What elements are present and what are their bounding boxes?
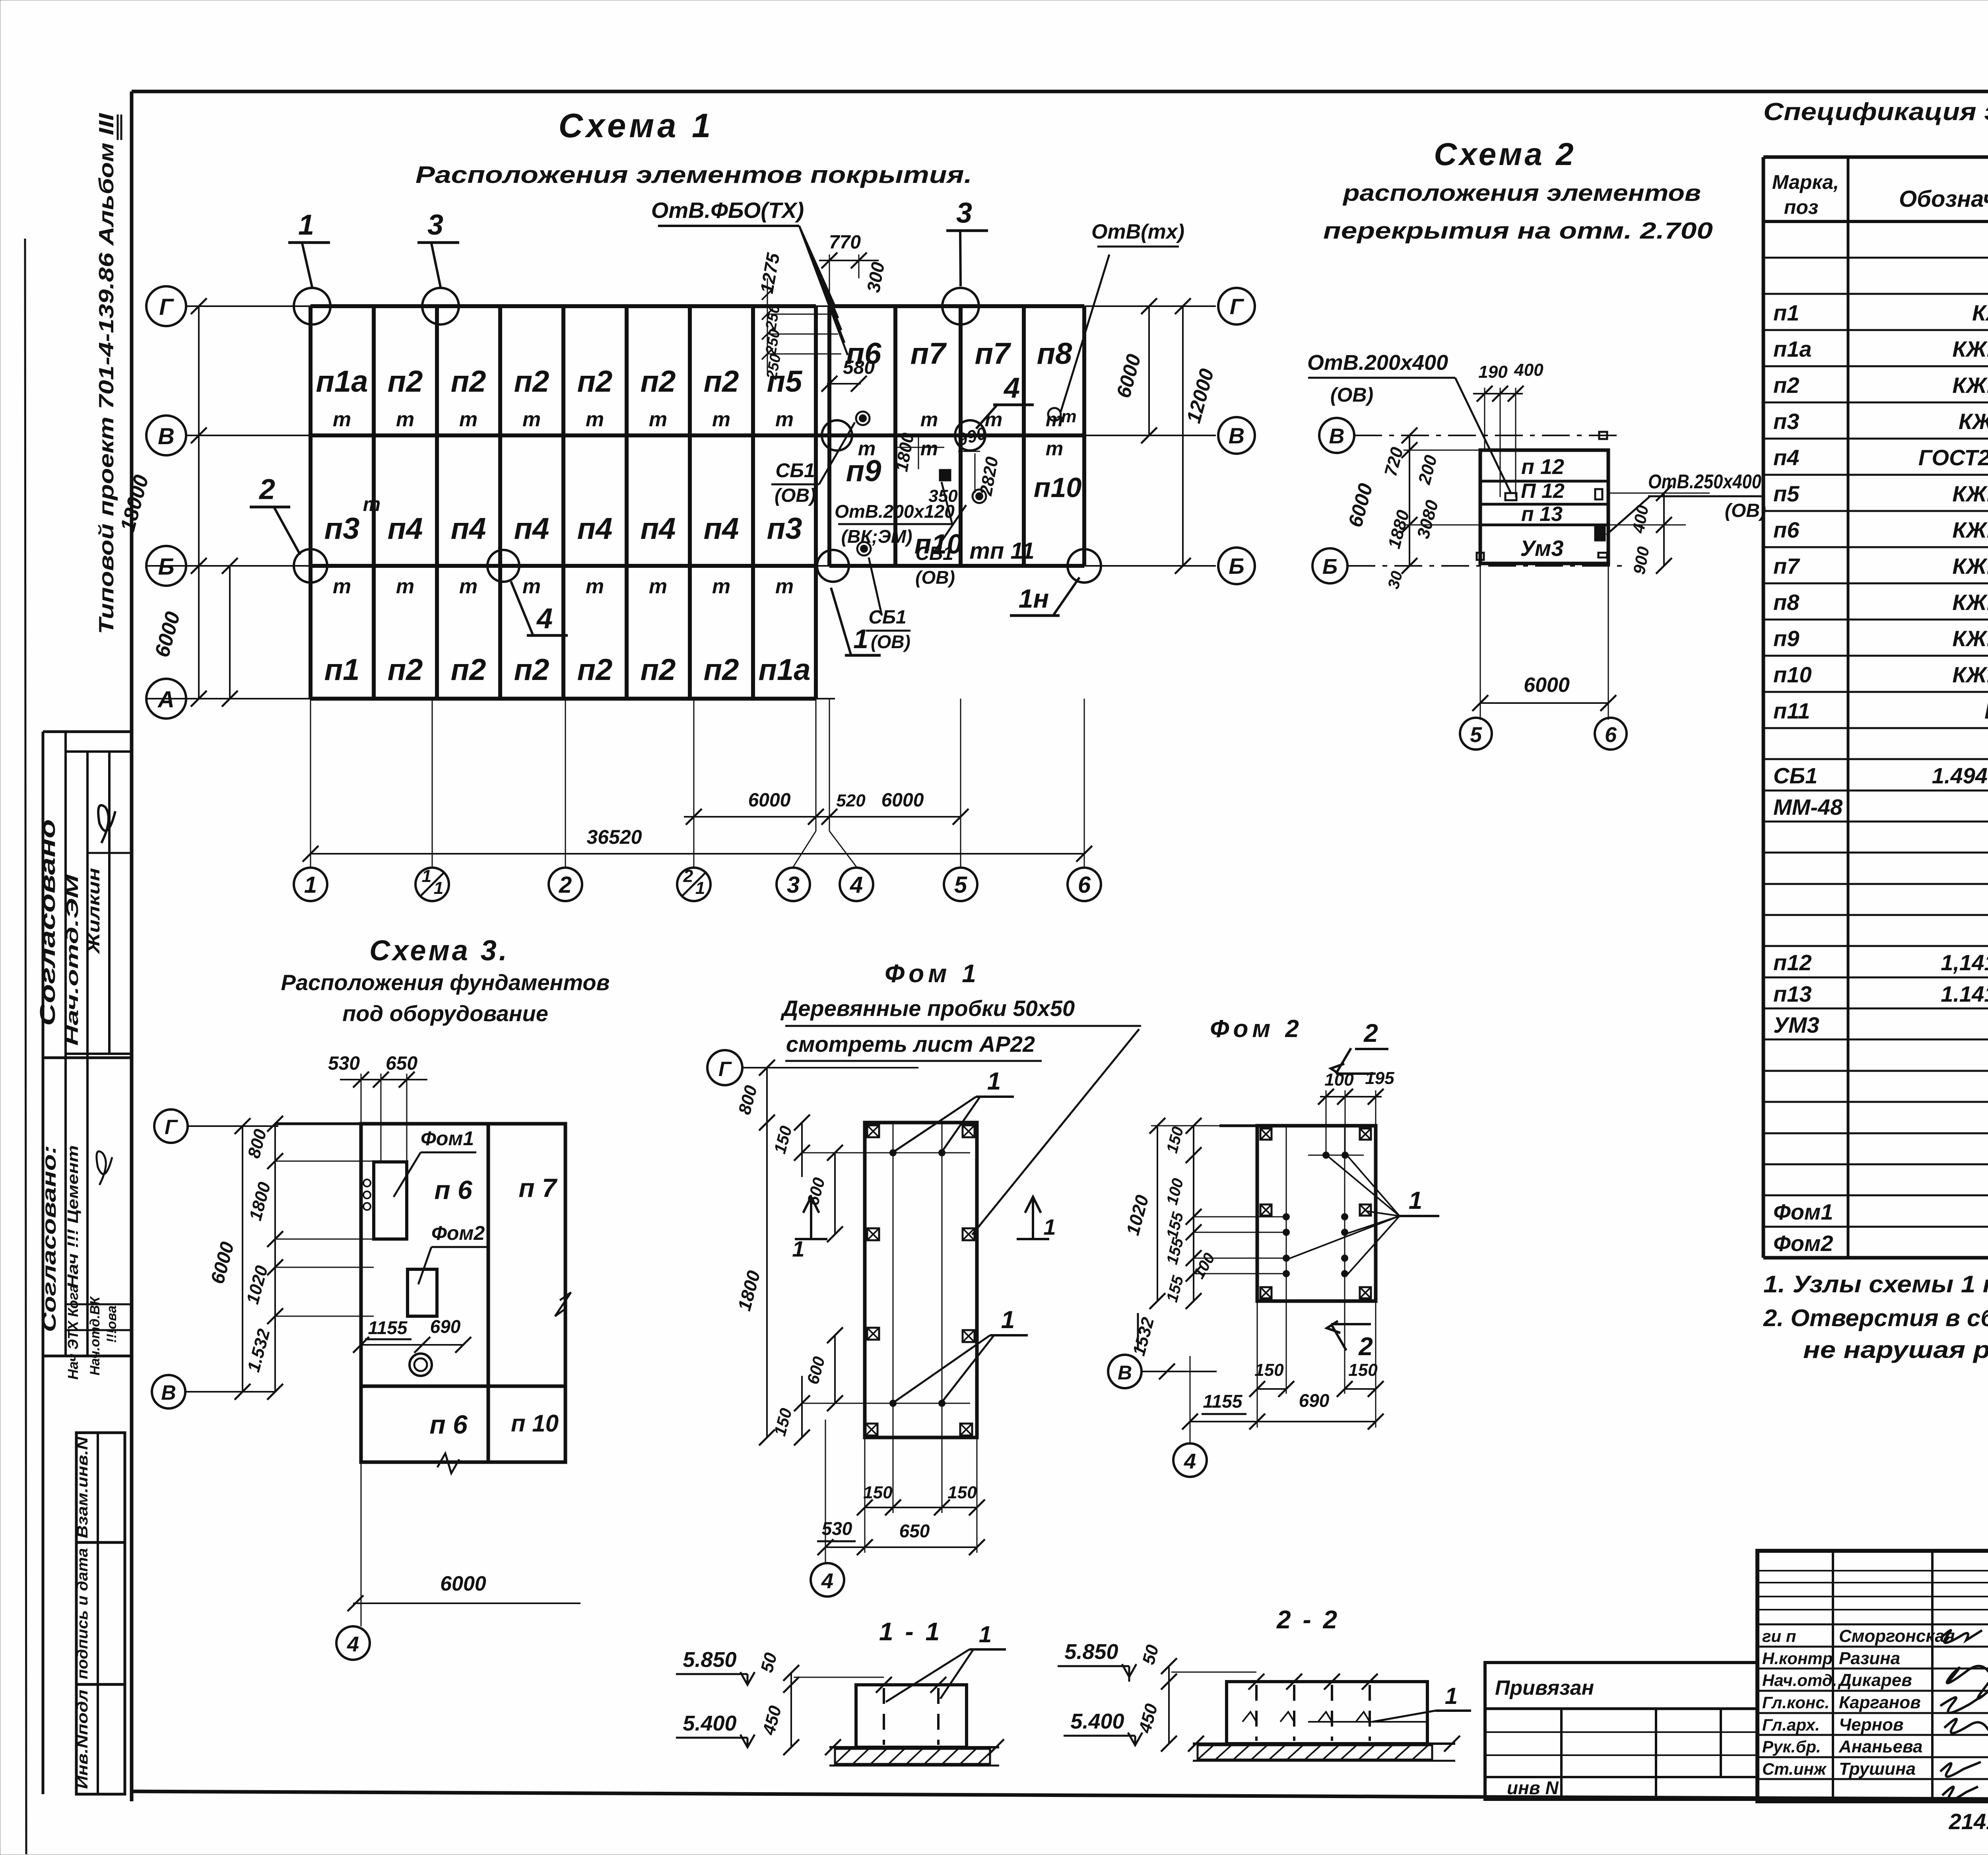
- svg-text:КЖ.И.031-03: КЖ.И.031-03: [1959, 409, 1988, 434]
- svg-text:Взам.инв.N: Взам.инв.N: [74, 1436, 91, 1538]
- svg-text:Ананьева: Ананьева: [1839, 1737, 1922, 1756]
- svg-text:п 6: п 6: [434, 1175, 473, 1204]
- svg-text:4: 4: [821, 1569, 833, 1593]
- svg-text:п2: п2: [451, 365, 486, 398]
- svg-text:п 13: п 13: [1521, 503, 1563, 526]
- svg-text:ОтВ(тх): ОтВ(тх): [1091, 220, 1184, 243]
- svg-text:В: В: [1118, 1362, 1132, 1384]
- svg-text:КЖ. И. 0.31: КЖ. И. 0.31: [1972, 300, 1988, 325]
- svg-text:530: 530: [822, 1518, 852, 1539]
- svg-text:п2: п2: [641, 653, 676, 687]
- Schema 1 left dimension lines 18000 / 6000: [198, 306, 200, 699]
- Schema 1 axis lines: [186, 305, 1084, 307]
- svg-text:т: т: [985, 408, 1002, 431]
- svg-text:т: т: [396, 408, 414, 431]
- title block outer: [1757, 1551, 1988, 1801]
- svg-text:690: 690: [430, 1316, 461, 1337]
- svg-text:п3: п3: [767, 512, 802, 546]
- Schema 3 drain symbol: [410, 1354, 432, 1376]
- svg-text:п10: п10: [1034, 472, 1082, 503]
- svg-text:п4: п4: [641, 512, 676, 546]
- svg-text:Расположения фундаментов: Расположения фундаментов: [281, 970, 610, 995]
- svg-text:п10: п10: [1773, 662, 1812, 687]
- svg-text:2 - 2: 2 - 2: [1276, 1605, 1340, 1634]
- svg-text:Фом2: Фом2: [431, 1222, 485, 1244]
- svg-text:1: 1: [1043, 1214, 1056, 1239]
- svg-text:Схема 3.: Схема 3.: [369, 935, 509, 967]
- Schema 1 bottom dim 36520: [311, 853, 1084, 855]
- svg-text:2: 2: [1363, 1019, 1378, 1047]
- svg-text:3: 3: [427, 209, 443, 241]
- Schema 1 right dimension lines 6000 / 12000: [1148, 306, 1150, 435]
- svg-text:6000: 6000: [748, 790, 791, 811]
- svg-text:п 6: п 6: [429, 1410, 468, 1439]
- svg-text:Чернов: Чернов: [1839, 1715, 1904, 1735]
- svg-text:Трушина: Трушина: [1839, 1759, 1916, 1779]
- Schema 1 left axis circles: [146, 286, 186, 326]
- svg-text:т: т: [333, 408, 351, 431]
- Schema 2 bottom axis circles 5 6: [1460, 718, 1492, 750]
- small hatch square symbol: [940, 470, 950, 480]
- svg-text:т: т: [459, 408, 478, 431]
- svg-text:п2: п2: [704, 365, 739, 398]
- Schema 1 node circles on axes: [294, 288, 330, 324]
- svg-text:1155: 1155: [1203, 1391, 1243, 1412]
- svg-text:2. Отверстия в сборных пл: 2. Отверстия в сборных плитах просверлит…: [1763, 1305, 1988, 1331]
- svg-text:т: т: [775, 575, 794, 598]
- svg-text:т: т: [920, 408, 938, 431]
- svg-text:690: 690: [1299, 1390, 1330, 1411]
- svg-text:А: А: [157, 687, 175, 713]
- svg-text:5: 5: [1470, 723, 1482, 747]
- svg-text:Фом 2: Фом 2: [1210, 1015, 1303, 1043]
- svg-text:п4: п4: [1773, 445, 1799, 470]
- svg-text:Фом 1: Фом 1: [885, 959, 980, 988]
- svg-text:(ОВ): (ОВ): [871, 631, 911, 652]
- svg-text:т: т: [522, 575, 541, 598]
- svg-text:Сморгонская: Сморгонская: [1839, 1626, 1955, 1646]
- svg-text:поз: поз: [1784, 196, 1819, 218]
- sheet frame border: [132, 90, 1988, 93]
- svg-text:Б: Б: [1322, 555, 1338, 579]
- svg-text:5.850: 5.850: [683, 1648, 736, 1672]
- svg-text:Согласовано:: Согласовано:: [39, 1145, 60, 1332]
- svg-text:п2: п2: [388, 653, 423, 687]
- svg-text:Ум3: Ум3: [1520, 536, 1563, 561]
- svg-text:п3: п3: [324, 512, 360, 546]
- svg-text:п7: п7: [1773, 554, 1800, 579]
- dim column line for 1275/250 stack: [767, 278, 768, 372]
- svg-text:п12: п12: [1773, 950, 1812, 975]
- svg-text:6000: 6000: [1524, 674, 1570, 697]
- Schema 3 axis 4 line and circle: [361, 1074, 362, 1124]
- Schema 1 axis extension lines to bottom circles: [310, 699, 311, 867]
- Fom 1 axis Г circle: [707, 1050, 742, 1085]
- Section 1-1 dim lines: [790, 1673, 792, 1747]
- svg-text:СБ1: СБ1: [915, 543, 953, 564]
- svg-text:Расположения элементов покры: Расположения элементов покрытия.: [415, 161, 972, 188]
- svg-text:п7: п7: [975, 337, 1011, 371]
- svg-text:т: т: [649, 408, 667, 431]
- Fom 1 left dims 800 1800: [766, 1068, 768, 1437]
- svg-text:(ОВ): (ОВ): [775, 485, 816, 506]
- svg-text:Нач ЭТХ Кога: Нач ЭТХ Кога: [65, 1284, 81, 1379]
- Schema 3 Fom1 rectangle: [374, 1162, 407, 1239]
- Schema 1 right axis circles: [1084, 305, 1216, 307]
- svg-text:4: 4: [1003, 372, 1020, 404]
- svg-text:т: т: [1046, 437, 1063, 460]
- svg-text:Г: Г: [165, 1116, 178, 1139]
- svg-text:ОтВ.250х400: ОтВ.250х400: [1648, 470, 1761, 493]
- svg-text:1,141-1.63 300: 1,141-1.63 300: [1941, 950, 1988, 975]
- svg-text:п9: п9: [1773, 626, 1799, 651]
- Fom 1 section marks 1: [795, 1238, 827, 1240]
- svg-text:инв N: инв N: [1507, 1777, 1559, 1798]
- Schema 1 panel grid : middle band: [309, 435, 313, 566]
- svg-text:Н.контр: Н.контр: [1762, 1649, 1833, 1668]
- svg-text:ОтВ.ФБО(ТХ): ОтВ.ФБО(ТХ): [651, 198, 804, 223]
- Schema 1 panel grid : top band: [311, 304, 816, 308]
- svg-text:150: 150: [947, 1483, 977, 1502]
- svg-text:т: т: [586, 408, 604, 431]
- svg-text:Привязан: Привязан: [1495, 1676, 1594, 1700]
- svg-text:КЖ.И.0.31-06: КЖ.И.0.31-06: [1952, 554, 1988, 579]
- svg-text:КЖ.И.0.31-05: КЖ.И.0.31-05: [1952, 517, 1988, 542]
- svg-text:580: 580: [843, 357, 875, 378]
- Fom 2 plan rectangle: [1257, 1126, 1376, 1301]
- svg-text:п2: п2: [388, 365, 423, 398]
- svg-text:не нарушая ребер плиты .: не нарушая ребер плиты .: [1803, 1336, 1988, 1363]
- svg-text:СБ1: СБ1: [1773, 763, 1817, 788]
- svg-text:п 10: п 10: [511, 1410, 559, 1437]
- SB1 glass symbols (double circles): [856, 412, 870, 425]
- svg-text:п2: п2: [577, 653, 613, 687]
- svg-text:520: 520: [836, 791, 866, 810]
- svg-text:ги п: ги п: [1762, 1627, 1796, 1645]
- Fom 1 axis 4 circle: [825, 1420, 826, 1563]
- svg-text:п 12: п 12: [1521, 455, 1564, 479]
- Schema 3 break marks: [437, 1453, 459, 1473]
- title block signature table: [1832, 1551, 1834, 1801]
- Specification table grid: [1763, 155, 1988, 159]
- signatures squiggles: [1940, 1630, 1982, 1643]
- svg-text:т: т: [775, 408, 794, 431]
- svg-text:СБ1: СБ1: [868, 607, 906, 628]
- svg-text:перекрытия на отм. 2.700: перекрытия на отм. 2.700: [1323, 218, 1713, 244]
- Fom 2 section mark 2 top: [1336, 1072, 1376, 1075]
- Schema 3 plan outline: [275, 1123, 565, 1125]
- svg-text:Согласовано: Согласовано: [36, 819, 60, 1026]
- svg-text:п2: п2: [704, 653, 739, 687]
- svg-text:п2: п2: [451, 653, 486, 687]
- svg-text:Фом1: Фом1: [1773, 1199, 1833, 1224]
- svg-text:5: 5: [954, 872, 967, 898]
- svg-text:УМ3: УМ3: [1773, 1012, 1819, 1037]
- svg-text:1: 1: [422, 866, 431, 886]
- svg-text:5.400: 5.400: [683, 1711, 736, 1735]
- svg-text:1: 1: [298, 209, 314, 241]
- svg-text:В: В: [1329, 424, 1345, 448]
- svg-text:1: 1: [1001, 1306, 1015, 1334]
- svg-text:1: 1: [695, 878, 705, 898]
- svg-text:расположения элементов: расположения элементов: [1342, 180, 1701, 206]
- svg-text:1: 1: [987, 1068, 1001, 1095]
- Fom 1 corner plug squares: [867, 1125, 879, 1137]
- Schema 1 panel grid : bottom band: [309, 566, 313, 699]
- svg-text:Фом2: Фом2: [1773, 1231, 1833, 1256]
- Schema 2 slab outline: [1480, 450, 1608, 563]
- svg-text:(ВК;ЭМ): (ВК;ЭМ): [841, 526, 912, 547]
- svg-text:Разина: Разина: [1839, 1649, 1900, 1668]
- svg-text:Г: Г: [1230, 294, 1244, 319]
- Fom 2 left dims: [1157, 1126, 1158, 1301]
- svg-text:тп 11: тп 11: [969, 538, 1034, 564]
- svg-text:Фом1: Фом1: [421, 1127, 474, 1150]
- svg-text:6: 6: [1078, 872, 1091, 898]
- svg-text:п 7: п 7: [518, 1173, 558, 1202]
- svg-text:Деревянные пробки 50х50: Деревянные пробки 50х50: [780, 996, 1075, 1021]
- svg-text:1: 1: [1445, 1683, 1458, 1709]
- left margin approval table: [42, 732, 45, 1794]
- svg-text:п4: п4: [704, 512, 739, 546]
- Fom 2 axis B circle: [1108, 1355, 1142, 1388]
- left margin stamp boxes: [76, 1433, 125, 1794]
- Section 2-2 pedestal: [1227, 1682, 1427, 1744]
- svg-text:190: 190: [1478, 362, 1508, 382]
- svg-text:6: 6: [1605, 723, 1617, 747]
- Schema 3 axis circles: [154, 1109, 188, 1143]
- svg-text:п1: п1: [1773, 300, 1799, 325]
- svg-text:Нач !!! Цемент: Нач !!! Цемент: [65, 1145, 82, 1288]
- Schema 3 left dims: [274, 1124, 276, 1392]
- svg-text:п2: п2: [514, 365, 549, 398]
- svg-text:КЖ.И.0.31-04: КЖ.И.0.31-04: [1952, 481, 1988, 506]
- svg-text:СБ1: СБ1: [775, 459, 815, 482]
- svg-text:1.141-1.63 400: 1.141-1.63 400: [1941, 981, 1988, 1006]
- svg-text:т: т: [1061, 407, 1076, 426]
- svg-text:т: т: [363, 493, 381, 515]
- svg-text:В: В: [1229, 423, 1244, 448]
- svg-text:100: 100: [1324, 1070, 1354, 1090]
- Fom 1 inner plug lines: [893, 1123, 894, 1437]
- svg-text:1: 1: [853, 624, 868, 654]
- Fom 1 plan rectangle: [865, 1123, 977, 1437]
- svg-text:т: т: [586, 575, 604, 598]
- Schema 2 left dims: [1409, 435, 1410, 566]
- svg-text:п8: п8: [1773, 590, 1800, 615]
- svg-text:ОтВ.200х120: ОтВ.200х120: [835, 501, 955, 522]
- svg-text:п2: п2: [577, 365, 613, 398]
- svg-text:!!!ова: !!!ова: [104, 1305, 119, 1343]
- svg-text:Гл.арх.: Гл.арх.: [1762, 1715, 1820, 1734]
- svg-text:под оборудование: под оборудование: [342, 1001, 548, 1026]
- svg-text:п1: п1: [324, 653, 360, 687]
- svg-text:п11: п11: [1773, 698, 1810, 723]
- svg-text:Г: Г: [159, 294, 174, 320]
- svg-text:п6: п6: [1773, 517, 1800, 542]
- svg-text:195: 195: [1365, 1068, 1394, 1088]
- svg-text:Типовой проект 701-4-139.86: Типовой проект 701-4-139.86 Альбом III: [95, 113, 118, 634]
- svg-text:150: 150: [863, 1483, 893, 1502]
- svg-text:Схема 1: Схема 1: [559, 107, 714, 145]
- Fom 1 dims 150 600: [801, 1123, 803, 1177]
- Section 1-1 ground: [829, 1746, 999, 1748]
- svg-text:т: т: [333, 575, 351, 598]
- svg-text:т: т: [649, 575, 667, 598]
- svg-text:т: т: [459, 575, 478, 598]
- svg-text:т: т: [858, 437, 876, 460]
- svg-text:Б: Б: [158, 554, 174, 580]
- privyazan block: [1485, 1663, 1757, 1799]
- svg-text:Дикарев: Дикарев: [1837, 1670, 1912, 1690]
- svg-text:т: т: [920, 437, 938, 460]
- svg-text:КЖ.И.0.31-08: КЖ.И.0.31-08: [1952, 626, 1988, 651]
- svg-text:смотреть лист АР22: смотреть лист АР22: [786, 1031, 1035, 1057]
- svg-text:п2: п2: [1773, 373, 1799, 398]
- svg-text:т: т: [522, 408, 541, 431]
- svg-text:Карганов: Карганов: [1839, 1693, 1921, 1712]
- svg-text:Жилкин: Жилкин: [84, 868, 103, 955]
- svg-text:п2: п2: [641, 365, 676, 398]
- svg-text:(ОВ): (ОВ): [915, 567, 955, 588]
- Section 1-1 pedestal: [856, 1685, 967, 1747]
- Section 2-2 ground: [1193, 1742, 1455, 1745]
- svg-text:Нач.отд.ЭМ: Нач.отд.ЭМ: [63, 874, 82, 1046]
- svg-text:Нач.отд.: Нач.отд.: [1762, 1671, 1837, 1690]
- svg-text:Схема 2: Схема 2: [1434, 136, 1576, 172]
- svg-text:п8: п8: [1037, 337, 1072, 371]
- svg-text:п2: п2: [514, 653, 549, 687]
- svg-text:п4: п4: [514, 512, 549, 546]
- Schema 1 bottom axis circles: [294, 868, 327, 901]
- svg-text:п5: п5: [1773, 481, 1800, 506]
- Schema 2 bottom dim 6000: [1480, 702, 1608, 704]
- svg-text:1155: 1155: [368, 1317, 408, 1338]
- svg-text:650: 650: [899, 1521, 930, 1541]
- svg-text:650: 650: [386, 1053, 417, 1074]
- svg-text:п3: п3: [1773, 409, 1799, 434]
- svg-text:Обозначение: Обозначение: [1899, 186, 1988, 212]
- svg-text:530: 530: [328, 1053, 360, 1074]
- svg-text:Ст.инж: Ст.инж: [1762, 1760, 1827, 1778]
- Fom 2 inner plug lines: [1286, 1126, 1287, 1301]
- svg-text:п7: п7: [911, 337, 947, 371]
- svg-text:21414-03: 21414-03: [1949, 1809, 1988, 1834]
- svg-text:П 12: П 12: [1521, 480, 1565, 503]
- svg-text:1 - 1: 1 - 1: [879, 1617, 942, 1646]
- svg-text:ГОСТ22701.1-77: ГОСТ22701.1-77: [1918, 445, 1988, 470]
- svg-text:2: 2: [1358, 1332, 1373, 1361]
- svg-text:400: 400: [1514, 360, 1543, 380]
- svg-text:1.494-24 вып.1: 1.494-24 вып.1: [1932, 763, 1988, 788]
- svg-text:1: 1: [979, 1622, 992, 1647]
- svg-text:Гл.конс.: Гл.конс.: [1762, 1693, 1829, 1712]
- svg-text:1н: 1н: [1019, 584, 1049, 613]
- Schema 1 bottom dims 6000 520 6000: [684, 816, 961, 818]
- svg-text:1. Узлы схемы 1 приняты: 1. Узлы схемы 1 приняты по серци 2.460- …: [1763, 1271, 1988, 1298]
- svg-text:КЖ.И.0.30: КЖ.И.0.30: [1984, 698, 1988, 723]
- svg-text:3: 3: [956, 197, 972, 229]
- svg-text:(ОВ): (ОВ): [1330, 384, 1373, 406]
- svg-text:Г: Г: [718, 1058, 732, 1081]
- svg-text:ММ-48: ММ-48: [1773, 794, 1843, 820]
- svg-text:В: В: [158, 423, 175, 449]
- svg-text:4: 4: [850, 872, 863, 898]
- svg-text:т: т: [712, 408, 730, 431]
- svg-text:2: 2: [258, 474, 275, 505]
- svg-text:6000: 6000: [440, 1572, 486, 1595]
- svg-text:1: 1: [792, 1236, 804, 1261]
- svg-text:п13: п13: [1773, 981, 1812, 1006]
- svg-text:150: 150: [1254, 1360, 1284, 1380]
- svg-text:КЖ.И.0.31-02: КЖ.И.0.31-02: [1952, 373, 1988, 398]
- svg-text:4: 4: [1184, 1449, 1196, 1473]
- svg-text:1: 1: [304, 872, 317, 898]
- Section 2-2 dim lines: [1168, 1666, 1170, 1744]
- Schema 2 axis circles: [1319, 418, 1354, 453]
- svg-text:п4: п4: [577, 512, 613, 546]
- svg-text:п4: п4: [451, 512, 486, 546]
- svg-text:5.850: 5.850: [1064, 1640, 1118, 1664]
- svg-text:Рук.бр.: Рук.бр.: [1762, 1737, 1821, 1756]
- Fom 1 long leader from probki label: [972, 1029, 1139, 1235]
- svg-text:п1а: п1а: [316, 365, 368, 398]
- svg-text:150: 150: [1348, 1360, 1378, 1380]
- svg-text:3: 3: [787, 872, 800, 898]
- svg-text:1: 1: [434, 878, 443, 898]
- svg-text:(ОВ): (ОВ): [1725, 500, 1766, 521]
- svg-text:4: 4: [536, 603, 553, 635]
- svg-text:подпись и дата: подпись и дата: [74, 1548, 91, 1679]
- svg-text:т: т: [712, 575, 730, 598]
- svg-text:4: 4: [347, 1632, 359, 1656]
- svg-text:п1а: п1а: [1773, 336, 1812, 361]
- svg-text:Спецификация элементов к сх: Спецификация элементов к схемам, располо…: [1763, 98, 1988, 126]
- svg-text:т: т: [396, 575, 414, 598]
- Schema 2 hole symbols: [1599, 432, 1607, 439]
- svg-text:Б: Б: [1229, 554, 1244, 579]
- svg-text:п4: п4: [388, 512, 423, 546]
- Fom 2 section mark 2 bottom: [1331, 1323, 1371, 1325]
- svg-text:6000: 6000: [881, 790, 924, 811]
- svg-text:КЖ.И.0.31-01: КЖ.И.0.31-01: [1952, 336, 1988, 361]
- Schema 3 Fom2 rectangle: [408, 1269, 437, 1316]
- svg-text:5.400: 5.400: [1070, 1709, 1124, 1733]
- svg-text:В: В: [161, 1381, 176, 1404]
- svg-text:КЖ.И.0.31-07: КЖ.И.0.31-07: [1952, 590, 1988, 615]
- svg-text:ОтВ.200х400: ОтВ.200х400: [1307, 351, 1448, 375]
- svg-text:770: 770: [829, 232, 861, 253]
- svg-text:КЖ.И.0.31-09: КЖ.И.0.31-09: [1952, 662, 1988, 687]
- svg-text:Марка,: Марка,: [1772, 171, 1839, 193]
- svg-text:36520: 36520: [586, 826, 642, 848]
- scanned page left edge: [25, 239, 26, 1854]
- svg-text:Инв.Nподл: Инв.Nподл: [74, 1690, 91, 1789]
- Fom 2 axis 4: [1190, 1356, 1191, 1443]
- svg-text:2: 2: [683, 866, 693, 886]
- svg-text:1: 1: [1409, 1187, 1422, 1214]
- svg-text:2: 2: [559, 872, 572, 898]
- svg-text:Нач.отд.ВК: Нач.отд.ВК: [87, 1296, 103, 1375]
- svg-text:п1а: п1а: [759, 653, 811, 687]
